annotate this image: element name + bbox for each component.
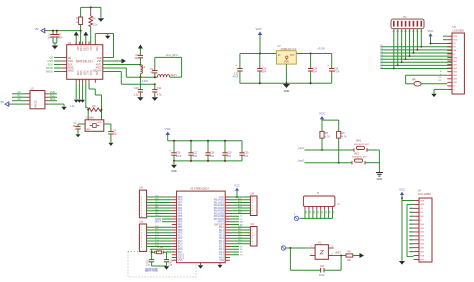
net labels on P4 wires bbox=[155, 226, 159, 247]
svg-text:U4: U4 bbox=[140, 187, 144, 190]
svg-text:BD: BD bbox=[240, 224, 243, 226]
svg-text:104: 104 bbox=[313, 71, 318, 74]
J7 pin wires down bbox=[305, 210, 333, 219]
capacitor C5 right of Y1 bbox=[104, 124, 118, 146]
svg-text:PB5: PB5 bbox=[178, 216, 183, 218]
svg-text:DB7: DB7 bbox=[420, 251, 424, 253]
svg-text:PC5: PC5 bbox=[155, 242, 159, 244]
svg-text:+3.3V: +3.3V bbox=[317, 46, 325, 50]
wire R6 to key2 row bbox=[338, 138, 340, 164]
svg-text:PA3: PA3 bbox=[178, 210, 183, 213]
svg-text:VCC: VCC bbox=[319, 111, 325, 115]
J8 pin numbers bbox=[420, 200, 425, 261]
header P5 body bbox=[250, 193, 257, 216]
svg-text:P2: P2 bbox=[403, 15, 407, 19]
svg-text:L4: L4 bbox=[142, 66, 145, 69]
svg-text:1: 1 bbox=[294, 214, 296, 216]
U5 right pins bbox=[225, 197, 230, 260]
svg-text:VSS: VSS bbox=[79, 71, 81, 76]
svg-text:MOSI: MOSI bbox=[68, 68, 74, 70]
wire regulator bottom rail bbox=[240, 82, 332, 84]
svg-text:PD7: PD7 bbox=[155, 201, 159, 203]
resistor R7 1M feedback bbox=[87, 105, 102, 111]
svg-text:PC6: PC6 bbox=[178, 249, 183, 251]
wire X1 feedback loop bbox=[290, 248, 341, 270]
capacitor C11 to ground bbox=[152, 83, 163, 101]
wires U5 to P5 bbox=[230, 197, 250, 214]
U5 left pins bbox=[172, 197, 177, 260]
ground keys bbox=[376, 173, 383, 182]
capacitor C10 to ground bbox=[134, 77, 144, 101]
power arrow above C8 bbox=[138, 45, 143, 56]
net labels on P5 wires bbox=[238, 197, 242, 214]
ground J8 bbox=[399, 261, 405, 265]
svg-text:PF4: PF4 bbox=[178, 213, 183, 215]
U1 left pins bbox=[61, 58, 66, 72]
header P4 body bbox=[139, 221, 146, 252]
wire port to X1 bbox=[286, 247, 310, 249]
svg-text:PB1: PB1 bbox=[178, 227, 183, 229]
svg-text:6: 6 bbox=[252, 241, 253, 243]
svg-text:NR: NR bbox=[240, 222, 244, 224]
svg-text:OSC1: OSC1 bbox=[178, 255, 185, 257]
wire J8 second bus bbox=[407, 204, 414, 256]
header P2 body bbox=[391, 15, 424, 29]
wire J8 vcc to pin1 bbox=[402, 198, 414, 200]
U1 top pin name labels bbox=[76, 46, 97, 51]
switch S2 key1 bbox=[354, 141, 370, 152]
svg-text:PD5: PD5 bbox=[155, 196, 159, 198]
svg-text:AD3: AD3 bbox=[238, 206, 242, 209]
svg-text:2: 2 bbox=[141, 230, 142, 232]
capacitor C12 input electrolytic bbox=[233, 54, 243, 84]
svg-text:47uF: 47uF bbox=[176, 155, 182, 158]
svg-text:PE.2: PE.2 bbox=[219, 233, 225, 235]
J8 stub wires bbox=[410, 208, 414, 251]
svg-text:GND: GND bbox=[377, 178, 383, 181]
svg-text:C11: C11 bbox=[157, 87, 162, 90]
svg-text:7: 7 bbox=[252, 244, 253, 246]
wire X1 out to R9 bbox=[334, 255, 346, 257]
svg-text:PD6: PD6 bbox=[178, 200, 183, 202]
inductor L4 bbox=[140, 65, 148, 83]
crystal Y2 bbox=[152, 247, 167, 254]
svg-text:DB4: DB4 bbox=[420, 240, 424, 242]
net label stubs right of U5 bbox=[230, 216, 244, 256]
inductor L5 bbox=[157, 74, 181, 77]
svg-text:PA1: PA1 bbox=[178, 204, 183, 207]
svg-text:1: 1 bbox=[252, 197, 253, 199]
svg-text:T3: T3 bbox=[240, 219, 243, 221]
svg-text:PB2: PB2 bbox=[178, 224, 183, 226]
svg-text:104: 104 bbox=[47, 36, 52, 39]
svg-text:CSN: CSN bbox=[68, 61, 73, 63]
svg-text:104: 104 bbox=[227, 155, 232, 158]
wire U1 bottom gnd stubs bbox=[76, 83, 82, 100]
svg-text:PB0: PB0 bbox=[178, 230, 183, 232]
capacitor C18 decoupling bbox=[205, 140, 215, 162]
svg-text:3: 3 bbox=[332, 246, 333, 248]
wire cap bank bottom rail bbox=[174, 160, 242, 162]
svg-text:DB0: DB0 bbox=[420, 224, 424, 226]
U1 top pins bbox=[76, 42, 95, 45]
net label +3.3V bbox=[317, 46, 325, 50]
power port VCC top right bbox=[428, 29, 452, 45]
wire keys top rail bbox=[322, 120, 339, 131]
svg-text:2: 2 bbox=[141, 200, 142, 202]
U1 right pin names bbox=[92, 58, 102, 73]
svg-text:3: 3 bbox=[141, 233, 142, 235]
U3 pin name marks bbox=[453, 36, 458, 91]
svg-text:4: 4 bbox=[252, 235, 253, 237]
wire U3 top stubs bbox=[443, 36, 447, 40]
svg-text:PA1: PA1 bbox=[155, 203, 158, 206]
svg-text:DB0: DB0 bbox=[453, 57, 457, 59]
svg-text:3: 3 bbox=[141, 202, 142, 204]
U1 bottom pins bbox=[76, 79, 95, 83]
svg-text:VCC: VCC bbox=[165, 127, 171, 131]
svg-text:A: A bbox=[440, 70, 442, 73]
svg-text:MISO: MISO bbox=[46, 69, 53, 73]
net label key1 bbox=[296, 146, 304, 150]
svg-text:2: 2 bbox=[252, 200, 253, 202]
power port VCC LCD connector bbox=[399, 187, 405, 199]
wire OSC1 row to crystal bbox=[150, 249, 172, 259]
header P5 pin numbers bbox=[252, 197, 253, 216]
svg-text:NRF24L01+: NRF24L01+ bbox=[76, 60, 93, 64]
svg-text:5: 5 bbox=[141, 208, 142, 210]
svg-text:PB.1/AD1: PB.1/AD1 bbox=[214, 201, 225, 204]
svg-text:104: 104 bbox=[262, 71, 267, 74]
svg-text:PA2: PA2 bbox=[155, 206, 158, 209]
ground arrow on VDD loop bbox=[105, 34, 111, 40]
svg-text:GND: GND bbox=[97, 122, 102, 124]
J8 net labels bbox=[409, 208, 414, 253]
capacitor C17 series bbox=[319, 265, 325, 277]
capacitor C9 bbox=[150, 57, 158, 78]
capacitor C6 bbox=[47, 30, 55, 43]
power port VCC cap bank bbox=[165, 127, 171, 141]
arrow right reset out bbox=[360, 253, 365, 258]
svg-text:2: 2 bbox=[311, 246, 312, 248]
net label below U1 bbox=[70, 106, 75, 108]
svg-text:VDD: VDD bbox=[95, 46, 97, 51]
svg-text:GND: GND bbox=[284, 61, 289, 63]
svg-text:P0: P0 bbox=[240, 246, 243, 248]
svg-text:PB.4/AD4: PB.4/AD4 bbox=[214, 210, 225, 213]
svg-text:VSS: VSS bbox=[76, 71, 78, 76]
svg-text:CE: CE bbox=[49, 55, 53, 59]
svg-text:6: 6 bbox=[252, 211, 253, 213]
svg-text:PC2: PC2 bbox=[155, 234, 159, 236]
ground crystal bbox=[164, 266, 170, 269]
U1 bottom pin names bbox=[76, 71, 97, 76]
svg-text:DB1: DB1 bbox=[453, 61, 457, 63]
wire crystal ground rail bbox=[152, 265, 167, 267]
svg-text:AD2: AD2 bbox=[238, 203, 242, 206]
net labels left of U1 bbox=[46, 55, 61, 73]
svg-text:VDD: VDD bbox=[97, 58, 102, 60]
svg-text:ANT2: ANT2 bbox=[96, 67, 103, 70]
svg-text:3.9nH: 3.9nH bbox=[142, 81, 148, 83]
svg-text:VSS: VSS bbox=[82, 46, 84, 51]
svg-text:GND: GND bbox=[284, 90, 290, 93]
svg-text:晶振电路: 晶振电路 bbox=[145, 267, 159, 272]
svg-text:22p: 22p bbox=[146, 264, 151, 266]
capacitor C8 bbox=[134, 54, 143, 65]
ground under U5 bbox=[198, 263, 204, 269]
svg-text:PF4: PF4 bbox=[155, 212, 158, 214]
selection dashed box crystal circuit bbox=[128, 252, 196, 278]
svg-text:7: 7 bbox=[141, 244, 142, 246]
svg-text:PA.4: PA.4 bbox=[219, 251, 225, 254]
svg-text:OSC2: OSC2 bbox=[178, 257, 185, 259]
svg-text:VDD: VDD bbox=[50, 90, 56, 94]
X1 pins bbox=[310, 246, 334, 256]
wire ANT2 to matching network bbox=[103, 68, 158, 77]
svg-text:VCC: VCC bbox=[234, 183, 240, 187]
wire key1 row bbox=[305, 149, 380, 151]
resistor R6 bbox=[337, 131, 347, 138]
svg-text:XC2: XC2 bbox=[86, 46, 88, 51]
svg-text:XC1: XC1 bbox=[89, 46, 91, 51]
net labels right of U2 bbox=[49, 90, 57, 101]
net labels SWIM NRST rows bbox=[155, 219, 172, 224]
wire OSC2 row to crystal bbox=[167, 252, 172, 260]
svg-text:U8: U8 bbox=[251, 193, 255, 196]
svg-text:PE.3: PE.3 bbox=[219, 235, 225, 237]
svg-text:RS: RS bbox=[439, 80, 443, 82]
text crystal circuit label bbox=[145, 267, 159, 272]
svg-text:PE5: PE5 bbox=[178, 233, 183, 235]
svg-text:NRST: NRST bbox=[218, 222, 225, 224]
svg-text:8: 8 bbox=[141, 216, 142, 218]
ground under U5 right bbox=[218, 263, 223, 268]
svg-text:DB5: DB5 bbox=[420, 244, 424, 246]
svg-text:U6: U6 bbox=[140, 221, 144, 224]
capacitor C19 decoupling bbox=[222, 140, 232, 162]
header P6 pin numbers bbox=[252, 227, 253, 246]
capacitor C17 decoupling bbox=[188, 140, 198, 162]
svg-text:PE2: PE2 bbox=[238, 231, 242, 233]
svg-text:PE.0: PE.0 bbox=[219, 227, 225, 229]
svg-text:PB.7/AD7: PB.7/AD7 bbox=[214, 218, 225, 221]
svg-text:C17: C17 bbox=[320, 265, 325, 268]
svg-text:MISO: MISO bbox=[68, 71, 74, 73]
net labels under P2 bbox=[393, 31, 424, 33]
header P3 pin numbers bbox=[141, 197, 142, 218]
connector J8 body bbox=[418, 189, 432, 262]
svg-text:15p: 15p bbox=[113, 134, 118, 136]
svg-text:C10: C10 bbox=[134, 87, 139, 90]
svg-text:VCC: VCC bbox=[219, 197, 224, 199]
svg-text:VDD: VDD bbox=[453, 40, 458, 42]
net labels on P3 wires bbox=[155, 196, 159, 217]
svg-text:SCK: SCK bbox=[47, 62, 53, 66]
svg-text:PC4: PC4 bbox=[178, 244, 183, 246]
svg-text:2: 2 bbox=[252, 230, 253, 232]
op IC U1 NRF24L01+ body bbox=[67, 42, 103, 80]
svg-text:PB.3/AD3: PB.3/AD3 bbox=[214, 207, 225, 210]
svg-text:R9: R9 bbox=[347, 251, 351, 254]
svg-text:22p: 22p bbox=[168, 264, 173, 266]
regulator U7 ASM1117-3.3 bbox=[276, 45, 296, 64]
svg-text:5: 5 bbox=[252, 208, 253, 210]
capacitor C13 input ceramic bbox=[257, 54, 267, 84]
svg-text:PC5: PC5 bbox=[178, 246, 183, 248]
wire regulator input rail bbox=[240, 53, 277, 55]
svg-text:VDD: VDD bbox=[79, 46, 81, 51]
svg-text:BAT-DET: BAT-DET bbox=[214, 223, 224, 226]
svg-text:104: 104 bbox=[244, 155, 249, 158]
svg-text:4: 4 bbox=[141, 205, 142, 207]
svg-text:PE5: PE5 bbox=[155, 229, 159, 231]
wires P4 to U5 bbox=[147, 227, 172, 246]
svg-text:DB4: DB4 bbox=[453, 72, 457, 74]
svg-text:XC2: XC2 bbox=[89, 71, 91, 76]
header P3 body bbox=[139, 187, 146, 218]
junction dot L4 bottom bbox=[139, 76, 141, 78]
svg-text:VCC: VCC bbox=[428, 29, 434, 33]
svg-text:U9: U9 bbox=[251, 223, 255, 226]
svg-text:PB.5/AD5: PB.5/AD5 bbox=[214, 212, 225, 215]
svg-text:P2: P2 bbox=[240, 252, 243, 254]
junction dots on cascade corners bbox=[393, 46, 422, 69]
svg-text:IRQ: IRQ bbox=[76, 46, 78, 50]
port circle J7 bbox=[294, 214, 299, 221]
J7 pins bbox=[305, 206, 333, 209]
svg-text:PD.0: PD.0 bbox=[219, 238, 225, 240]
svg-text:PA.6: PA.6 bbox=[219, 256, 225, 259]
svg-text:DB6: DB6 bbox=[453, 79, 457, 81]
svg-text:SDA: SDA bbox=[50, 97, 56, 101]
svg-text:PE1: PE1 bbox=[238, 229, 242, 231]
net label 1mm_RF-0 bbox=[155, 54, 182, 77]
ground cap bank bbox=[171, 161, 177, 173]
svg-text:VSS: VSS bbox=[97, 61, 102, 63]
svg-text:1: 1 bbox=[141, 197, 142, 199]
capacitor C20 bbox=[146, 260, 155, 267]
svg-text:GND: GND bbox=[171, 170, 177, 173]
net label uRST bbox=[335, 252, 341, 254]
svg-text:SW1: SW1 bbox=[356, 141, 362, 143]
svg-text:PC1: PC1 bbox=[155, 231, 159, 233]
wire U1 VDD loop top right bbox=[95, 34, 113, 58]
text J7 right annotation bbox=[337, 204, 340, 206]
J8 pins bbox=[414, 201, 420, 260]
svg-text:PD.4: PD.4 bbox=[219, 249, 225, 251]
resistor R3 bbox=[76, 7, 82, 24]
svg-text:C21: C21 bbox=[168, 261, 173, 263]
svg-text:VCC: VCC bbox=[255, 27, 261, 31]
wire ANT1 to matching network bbox=[103, 64, 142, 66]
J7 pin net labels bbox=[305, 211, 335, 214]
junction dot on pull-up rail bbox=[90, 6, 92, 8]
svg-text:47uF: 47uF bbox=[233, 76, 239, 79]
svg-text:AD4: AD4 bbox=[238, 208, 242, 211]
wire 3V rail bbox=[47, 30, 82, 32]
svg-text:_key1: _key1 bbox=[296, 146, 304, 150]
svg-text:DB3: DB3 bbox=[420, 236, 424, 238]
ground right of U2 bbox=[49, 104, 67, 110]
IC X1 body bbox=[315, 241, 328, 259]
svg-text:VSS: VSS bbox=[95, 71, 97, 76]
svg-text:PD6: PD6 bbox=[155, 198, 159, 200]
power port VCC regulator bbox=[255, 27, 262, 54]
IC U2 24C02 body bbox=[30, 88, 45, 109]
svg-text:SW2: SW2 bbox=[354, 153, 360, 155]
svg-text:DB3: DB3 bbox=[453, 68, 457, 70]
svg-text:4: 4 bbox=[332, 254, 333, 256]
svg-text:4: 4 bbox=[252, 205, 253, 207]
resistor R5 bbox=[320, 131, 330, 138]
svg-text:IN: IN bbox=[278, 55, 281, 57]
svg-text:PA2: PA2 bbox=[178, 207, 183, 210]
svg-text:1M: 1M bbox=[92, 105, 95, 108]
svg-text:DB5: DB5 bbox=[453, 75, 457, 77]
svg-text:Y1 16M: Y1 16M bbox=[86, 118, 94, 120]
svg-text:4: 4 bbox=[141, 235, 142, 237]
capacitor C16 electrolytic bbox=[170, 140, 182, 162]
svg-text:104: 104 bbox=[58, 36, 63, 39]
svg-text:8: 8 bbox=[141, 246, 142, 248]
net labels left of U2 bbox=[12, 90, 26, 101]
svg-text:10uF: 10uF bbox=[319, 274, 325, 277]
svg-text:5: 5 bbox=[252, 238, 253, 240]
svg-text:SWIM: SWIM bbox=[155, 219, 161, 221]
svg-text:4.7K: 4.7K bbox=[325, 136, 330, 139]
net label key2 bbox=[296, 159, 304, 163]
svg-text:DB2: DB2 bbox=[420, 232, 424, 234]
ground under C6 C7 bbox=[52, 43, 59, 49]
wire VDD_PA to matching network bbox=[103, 72, 155, 85]
header P2 pin bars bbox=[393, 21, 422, 27]
wires P3 to U5 bbox=[147, 197, 172, 216]
svg-text:PD1: PD1 bbox=[238, 240, 242, 242]
wire regulator output rail bbox=[296, 53, 331, 55]
net labels left of U3 mid bbox=[438, 70, 442, 82]
svg-text:PC3: PC3 bbox=[178, 241, 183, 243]
svg-text:PD.2: PD.2 bbox=[219, 244, 225, 246]
svg-text:T2: T2 bbox=[240, 216, 243, 218]
svg-text:LCD-0802: LCD-0802 bbox=[453, 30, 465, 33]
svg-text:ANT1: ANT1 bbox=[96, 63, 103, 66]
svg-text:RW: RW bbox=[453, 50, 456, 52]
svg-text:PC4: PC4 bbox=[155, 240, 159, 242]
svg-text:3V: 3V bbox=[35, 27, 39, 31]
U3 left pins bbox=[447, 36, 452, 89]
wire U3 ground bbox=[431, 89, 447, 97]
capacitor C15 output electrolytic bbox=[327, 54, 340, 84]
power arrow VCC to U1 pin 2 bbox=[83, 32, 88, 45]
U5 left pin names bbox=[178, 197, 185, 262]
wire R3 to IRQ pin bbox=[80, 25, 82, 45]
svg-text:XC1: XC1 bbox=[86, 71, 88, 76]
svg-text:1: 1 bbox=[311, 254, 312, 256]
svg-text:AD5: AD5 bbox=[238, 211, 242, 214]
svg-text:PD5: PD5 bbox=[178, 197, 183, 199]
svg-text:4.7K: 4.7K bbox=[342, 136, 347, 139]
wire key2 row bbox=[305, 162, 380, 164]
svg-text:Y2 8M: Y2 8M bbox=[157, 247, 164, 249]
svg-text:X1: X1 bbox=[318, 241, 322, 244]
capacitor C21 bbox=[164, 260, 173, 267]
svg-text:_key2: _key2 bbox=[296, 159, 304, 163]
wire J7 common bus bbox=[299, 217, 332, 219]
svg-text:P1: P1 bbox=[240, 249, 243, 251]
power arrow VCC to U1 pin bbox=[74, 32, 79, 45]
U2 right pins bbox=[45, 94, 49, 104]
